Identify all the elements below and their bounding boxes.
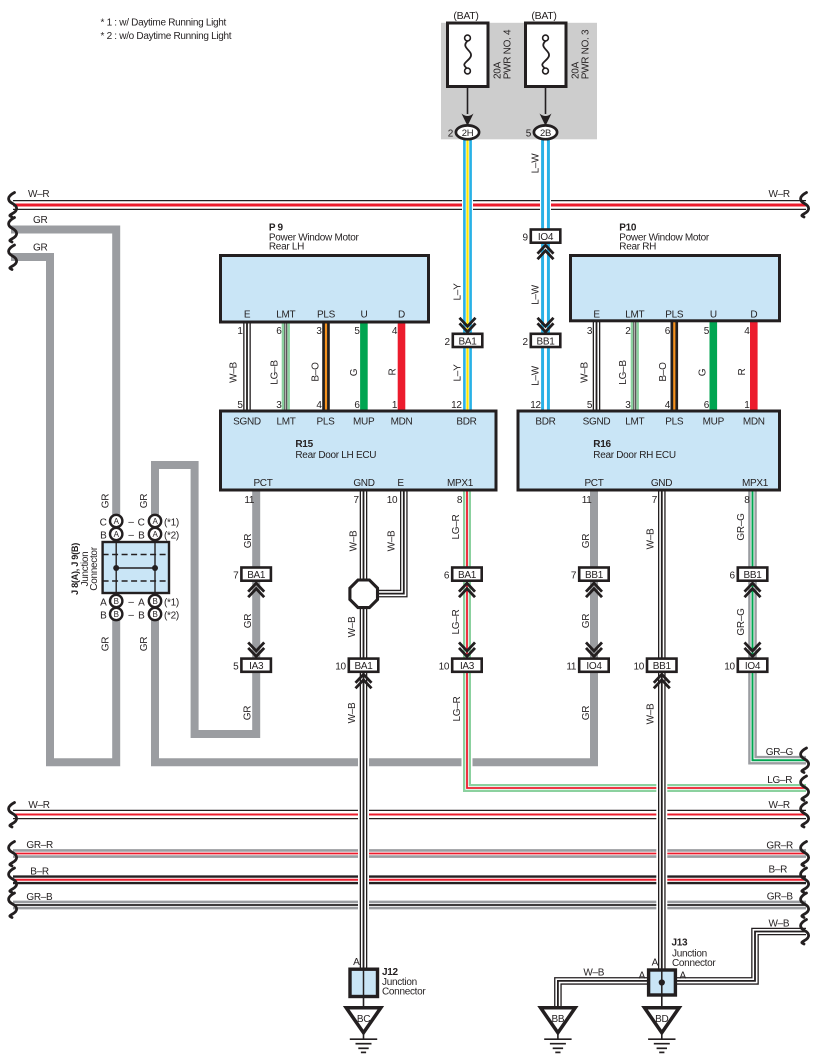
break GR bus1 left	[9, 218, 17, 243]
svg-text:–: –	[128, 597, 134, 608]
svg-text:LMT: LMT	[625, 310, 644, 321]
arrows up from BB1 7	[586, 583, 602, 597]
svg-text:W–B: W–B	[769, 919, 790, 930]
svg-text:BDR: BDR	[456, 416, 476, 427]
arrows up from IO4 9	[538, 245, 554, 259]
wire LG-B P9 LMT to R15 LMT	[282, 322, 290, 411]
svg-text:(BAT): (BAT)	[453, 10, 478, 22]
component J12 junction connector	[350, 957, 426, 1008]
break GR-R right	[801, 842, 809, 867]
connector BB1 pin 2 on L-W	[523, 334, 561, 348]
svg-text:LG–R: LG–R	[451, 514, 462, 539]
svg-text:MPX1: MPX1	[742, 478, 769, 489]
terminal B-B left	[110, 608, 122, 620]
label 20A PWR NO. 4	[493, 29, 514, 79]
svg-text:GR: GR	[243, 534, 254, 548]
svg-text:B–O: B–O	[311, 362, 322, 382]
svg-text:–: –	[128, 530, 134, 541]
wire W-B P9 E to R15 SGND	[243, 322, 251, 411]
svg-text:* 2 : w/o Daytime Running Ligh: * 2 : w/o Daytime Running Light	[101, 31, 232, 42]
svg-text:GR: GR	[101, 637, 112, 651]
svg-text:G: G	[697, 368, 708, 376]
svg-text:R: R	[737, 368, 748, 375]
wire LG-R from R15 MPX1 to right edge	[467, 490, 806, 788]
break LG-R right	[801, 776, 809, 801]
svg-text:A: A	[138, 597, 145, 608]
svg-text:IO4: IO4	[745, 661, 761, 672]
svg-text:5: 5	[237, 400, 243, 411]
svg-text:W–B: W–B	[347, 616, 358, 637]
fuse 20A PWR NO.4	[448, 23, 489, 87]
svg-text:W–B: W–B	[229, 361, 240, 382]
svg-text:SGND: SGND	[583, 416, 611, 427]
arrows down to IO4 11	[586, 642, 602, 656]
svg-text:6: 6	[665, 326, 671, 337]
svg-text:10: 10	[633, 662, 644, 673]
svg-text:U: U	[710, 310, 717, 321]
svg-text:W–B: W–B	[580, 361, 591, 382]
wire W-R top bus	[13, 200, 806, 210]
svg-text:(*1): (*1)	[164, 597, 179, 608]
connector IA3 pin 5 on GR	[233, 659, 271, 673]
label 20A PWR NO. 3	[571, 29, 592, 79]
svg-text:2H: 2H	[462, 128, 474, 139]
wire GR-B bus	[13, 901, 806, 910]
break GR-R left	[9, 842, 17, 867]
svg-text:BC: BC	[357, 1014, 370, 1025]
label J8(A) J9(B) junction connector	[70, 543, 100, 595]
svg-text:E: E	[244, 310, 251, 321]
svg-text:L–Y: L–Y	[453, 364, 464, 382]
svg-text:SGND: SGND	[233, 416, 261, 427]
svg-text:W–B: W–B	[583, 967, 604, 978]
svg-text:PCT: PCT	[584, 478, 603, 489]
svg-text:MUP: MUP	[703, 416, 725, 427]
svg-text:Rear Door LH ECU: Rear Door LH ECU	[295, 450, 376, 461]
svg-text:3: 3	[276, 400, 282, 411]
wire L-Y from fuse 2H to R15 BDR	[462, 139, 473, 411]
svg-text:MUP: MUP	[353, 416, 375, 427]
connector IO4 pin 9 on L-W	[523, 230, 561, 244]
svg-text:9: 9	[523, 233, 529, 244]
svg-text:R15: R15	[295, 439, 313, 450]
connector BB1 pin 6 on GR-G	[730, 568, 768, 582]
svg-text:B: B	[100, 610, 107, 621]
svg-text:* 1 : w/ Daytime Running Light: * 1 : w/ Daytime Running Light	[101, 17, 227, 28]
svg-text:PWR NO. 4: PWR NO. 4	[503, 29, 514, 79]
terminal A-B right	[149, 595, 161, 607]
wire GR R16 PCT to IO4	[590, 490, 598, 672]
svg-text:W–R: W–R	[769, 800, 790, 811]
svg-text:GR–G: GR–G	[736, 608, 747, 636]
wire L-W from fuse 2B to R16 BDR	[540, 139, 551, 411]
arrows down to BB1 2	[538, 318, 554, 332]
svg-text:LMT: LMT	[276, 310, 295, 321]
wire W-B J13 to ground BB	[558, 981, 650, 1008]
connector 2H pin 2	[448, 125, 479, 139]
wire B-R bus	[13, 875, 806, 884]
component R16 Rear Door RH ECU	[518, 411, 780, 490]
svg-text:6: 6	[730, 571, 736, 582]
ground BC	[346, 1008, 381, 1053]
svg-text:J 8(A), J 9(B): J 8(A), J 9(B)	[70, 543, 80, 595]
svg-text:IO4: IO4	[538, 232, 554, 243]
svg-text:MDN: MDN	[743, 416, 765, 427]
arrow fuse1 to connector 2H	[462, 86, 474, 126]
break GR-B left	[9, 893, 17, 918]
svg-text:C: C	[138, 517, 145, 528]
svg-text:D: D	[398, 310, 405, 321]
wire W-B J13 to right edge	[675, 932, 806, 981]
connector BA1 pin 2 on L-Y	[445, 334, 483, 348]
svg-text:W–B: W–B	[646, 703, 657, 724]
svg-text:10: 10	[335, 662, 346, 673]
svg-text:5: 5	[233, 662, 239, 673]
svg-text:B: B	[114, 597, 119, 606]
arrows up from BB1 10	[654, 674, 670, 688]
arrow fuse2 to connector 2B	[540, 86, 552, 126]
svg-text:J13: J13	[672, 938, 689, 949]
svg-text:BB1: BB1	[653, 661, 672, 672]
svg-text:5: 5	[704, 326, 710, 337]
ground BB	[541, 1008, 576, 1053]
svg-text:B–R: B–R	[769, 865, 788, 876]
svg-text:L–W: L–W	[531, 365, 542, 386]
terminal B-A right	[149, 528, 161, 540]
svg-text:(BAT): (BAT)	[531, 10, 556, 22]
svg-text:LG–R: LG–R	[767, 775, 792, 786]
svg-text:GR: GR	[581, 614, 592, 628]
wire R P9 D to R15 MDN	[398, 322, 406, 411]
wire GR-R bus	[13, 849, 806, 858]
svg-text:W–B: W–B	[348, 530, 359, 551]
svg-text:2: 2	[523, 337, 529, 348]
svg-text:GR–B: GR–B	[767, 892, 794, 903]
svg-text:4: 4	[392, 326, 398, 337]
wire LG-B P10 LMT to R16 LMT	[631, 322, 639, 411]
svg-text:B: B	[152, 597, 157, 606]
wire W-B R16 GND to J13	[656, 490, 667, 971]
svg-text:LG–B: LG–B	[618, 360, 629, 385]
break W-R top left	[9, 193, 17, 218]
wire GR-G from R16 MPX1 to right edge	[753, 490, 807, 760]
wire W-B R15 GND to octagon junction	[360, 490, 368, 585]
component J8(A) J9(B) junction connector	[103, 542, 169, 593]
svg-text:B–R: B–R	[30, 867, 49, 878]
svg-text:10: 10	[439, 662, 450, 673]
svg-text:Connector: Connector	[89, 546, 100, 590]
arrows up from BA1 7	[248, 583, 264, 597]
arrows down to IA3 5	[248, 642, 264, 656]
terminal C-A left	[110, 515, 122, 527]
svg-text:B: B	[152, 610, 157, 619]
svg-text:GR: GR	[581, 706, 592, 720]
svg-text:BDR: BDR	[535, 416, 555, 427]
svg-text:1: 1	[392, 400, 398, 411]
label row C A - C A (*1)	[100, 517, 179, 528]
svg-text:LMT: LMT	[625, 416, 644, 427]
wire G P10 U to R16 MUP	[709, 322, 717, 411]
svg-text:GR: GR	[243, 614, 254, 628]
svg-text:7: 7	[652, 495, 658, 506]
svg-text:E: E	[593, 310, 600, 321]
component R15 Rear Door LH ECU	[221, 411, 497, 490]
svg-text:IA3: IA3	[460, 661, 475, 672]
connector IO4 pin 11 on GR	[566, 659, 608, 673]
svg-text:A: A	[100, 597, 107, 608]
connector BA1 pin 7 on GR	[233, 568, 271, 582]
svg-text:2B: 2B	[540, 128, 551, 139]
svg-text:BB1: BB1	[743, 570, 762, 581]
svg-text:8: 8	[744, 495, 750, 506]
svg-text:A: A	[680, 971, 687, 982]
svg-text:B–O: B–O	[658, 362, 669, 382]
connector 2B pin 5	[526, 125, 557, 139]
svg-text:GR: GR	[101, 494, 112, 508]
svg-text:6: 6	[276, 326, 282, 337]
svg-text:PCT: PCT	[253, 478, 272, 489]
svg-text:R: R	[388, 368, 399, 375]
svg-text:W–R: W–R	[28, 800, 49, 811]
svg-text:W–R: W–R	[28, 189, 49, 200]
svg-text:12: 12	[530, 400, 541, 411]
svg-text:GR: GR	[33, 215, 47, 226]
svg-text:U: U	[360, 310, 367, 321]
terminal C-A right	[149, 515, 161, 527]
terminal A-B left	[110, 595, 122, 607]
svg-text:BA1: BA1	[247, 570, 266, 581]
svg-text:–: –	[128, 610, 134, 621]
svg-text:BA1: BA1	[354, 661, 373, 672]
svg-text:MDN: MDN	[391, 416, 413, 427]
ground BD	[645, 1008, 680, 1053]
svg-text:D: D	[750, 310, 757, 321]
svg-text:11: 11	[566, 662, 577, 673]
svg-text:GND: GND	[651, 478, 672, 489]
svg-text:11: 11	[582, 495, 593, 506]
svg-text:2: 2	[448, 128, 454, 139]
svg-text:W–B: W–B	[386, 530, 397, 551]
svg-text:B: B	[138, 530, 145, 541]
wire G P9 U to R15 MUP	[360, 322, 368, 411]
svg-text:IA3: IA3	[249, 661, 264, 672]
svg-text:8: 8	[457, 495, 463, 506]
svg-text:6: 6	[704, 400, 710, 411]
svg-text:B: B	[100, 530, 107, 541]
wire GR junction connector J8 bottom to left bus	[11, 257, 116, 762]
svg-text:5: 5	[354, 326, 360, 337]
arrows up from BA1 6	[459, 583, 475, 597]
component J13 junction connector	[639, 938, 717, 1008]
svg-text:PWR NO. 3: PWR NO. 3	[581, 29, 592, 79]
svg-text:B: B	[114, 610, 119, 619]
connector BA1 pin 6 on LG-R	[444, 568, 482, 582]
svg-text:1: 1	[237, 326, 243, 337]
arrows up from BA1 10	[356, 674, 372, 688]
svg-text:PLS: PLS	[665, 310, 684, 321]
svg-text:L–W: L–W	[531, 153, 542, 174]
connector IA3 pin 10 on LG-R	[439, 659, 482, 673]
label row B B - B B (*2)	[100, 610, 179, 621]
svg-text:GR: GR	[139, 637, 150, 651]
svg-text:GR: GR	[33, 243, 47, 254]
svg-text:3: 3	[587, 326, 593, 337]
svg-text:6: 6	[444, 571, 450, 582]
break W-R top right	[801, 193, 809, 218]
svg-text:GR–R: GR–R	[26, 840, 53, 851]
svg-text:GR: GR	[243, 706, 254, 720]
break B-R right	[801, 868, 809, 893]
wire R P10 D to R16 MDN	[750, 322, 758, 411]
svg-text:W–B: W–B	[646, 528, 657, 549]
svg-text:LG–B: LG–B	[269, 360, 280, 385]
svg-text:PLS: PLS	[316, 416, 335, 427]
svg-text:–: –	[128, 517, 134, 528]
svg-text:LMT: LMT	[276, 416, 295, 427]
svg-text:Rear Door RH ECU: Rear Door RH ECU	[593, 450, 676, 461]
svg-text:7: 7	[354, 495, 360, 506]
arrows down to IA3 10	[459, 642, 475, 656]
svg-text:2: 2	[445, 337, 451, 348]
svg-text:GND: GND	[353, 478, 374, 489]
svg-text:GR–R: GR–R	[766, 841, 793, 852]
svg-text:MPX1: MPX1	[447, 478, 474, 489]
svg-text:10: 10	[387, 495, 398, 506]
wire GR junction connector J8 bottom right to IO4	[155, 619, 594, 762]
svg-text:1: 1	[744, 400, 750, 411]
break GR-G right	[801, 748, 809, 773]
svg-text:PLS: PLS	[317, 310, 336, 321]
svg-text:L–Y: L–Y	[453, 283, 464, 301]
svg-text:BB: BB	[552, 1014, 565, 1025]
svg-text:C: C	[100, 517, 107, 528]
svg-text:G: G	[349, 368, 360, 376]
svg-text:11: 11	[244, 495, 255, 506]
svg-text:12: 12	[451, 400, 462, 411]
svg-text:R16: R16	[593, 439, 611, 450]
svg-text:6: 6	[354, 400, 360, 411]
svg-text:LG–R: LG–R	[451, 609, 462, 634]
break W-B right	[801, 920, 809, 945]
wire B-O P10 PLS to R16 PLS	[670, 322, 678, 411]
label row B A - B A (*2)	[100, 530, 179, 541]
wire W-R bottom bus	[13, 810, 806, 819]
svg-text:(*1): (*1)	[164, 517, 179, 528]
svg-text:BD: BD	[655, 1014, 668, 1025]
svg-text:Rear LH: Rear LH	[269, 242, 304, 253]
svg-text:GR–B: GR–B	[26, 892, 53, 903]
wire GR junction connector J8 right terminals loop to IA3 and PCT of R15	[155, 465, 256, 734]
svg-text:BA1: BA1	[458, 336, 477, 347]
svg-text:7: 7	[571, 571, 577, 582]
arrows up from BB1 6	[745, 583, 761, 597]
connector BB1 pin 7 on GR	[571, 568, 609, 582]
arrows down to BA1 2	[460, 318, 476, 332]
svg-text:3: 3	[625, 400, 631, 411]
svg-text:3: 3	[316, 326, 322, 337]
break GR-B right	[801, 893, 809, 918]
svg-text:BA1: BA1	[458, 570, 477, 581]
svg-text:Connector: Connector	[672, 958, 716, 969]
connector BA1 pin 10 on W-B	[335, 659, 378, 673]
svg-text:(*2): (*2)	[164, 610, 179, 621]
label row A B - A B (*1)	[100, 597, 179, 608]
svg-text:IO4: IO4	[586, 661, 602, 672]
svg-text:A: A	[639, 971, 646, 982]
svg-text:BB1: BB1	[536, 336, 555, 347]
svg-text:GR–G: GR–G	[766, 747, 794, 758]
wire GR bus from left to junction connector J8 top	[11, 230, 116, 518]
svg-text:PLS: PLS	[665, 416, 684, 427]
svg-text:A: A	[353, 957, 360, 968]
component P10 Power Window Motor Rear RH	[571, 222, 780, 320]
fuse block background	[441, 23, 597, 140]
svg-text:Connector: Connector	[382, 987, 426, 998]
svg-text:BB1: BB1	[585, 570, 604, 581]
fuse 20A PWR NO.3	[526, 23, 567, 87]
svg-text:E: E	[397, 478, 404, 489]
arrows down to IO4 10	[745, 642, 761, 656]
break W-R bottom right	[801, 803, 809, 828]
svg-text:A: A	[652, 957, 659, 968]
connector BB1 pin 10 on W-B	[633, 659, 676, 673]
svg-text:10: 10	[724, 662, 735, 673]
svg-text:GR–G: GR–G	[736, 513, 747, 541]
svg-text:GR: GR	[139, 494, 150, 508]
wire W-B P10 E to R16 SGND	[593, 322, 601, 411]
svg-text:W–R: W–R	[769, 189, 790, 200]
svg-text:B: B	[138, 610, 145, 621]
svg-text:4: 4	[744, 326, 750, 337]
svg-text:LG–R: LG–R	[452, 696, 463, 721]
svg-text:2: 2	[625, 326, 631, 337]
svg-text:5: 5	[587, 400, 593, 411]
svg-text:GR: GR	[581, 534, 592, 548]
wire B-O P9 PLS to R15 PLS	[322, 322, 330, 411]
component P9 Power Window Motor Rear LH	[221, 222, 429, 322]
svg-text:W–B: W–B	[347, 702, 358, 723]
terminal B-B right	[149, 608, 161, 620]
break GR bus2 left	[9, 245, 17, 270]
svg-text:5: 5	[526, 128, 532, 139]
node octagon splice R15 GND/E	[350, 580, 378, 608]
svg-text:L–W: L–W	[531, 284, 542, 305]
svg-text:4: 4	[665, 400, 671, 411]
terminal B-A left	[110, 528, 122, 540]
break B-R left	[9, 868, 17, 893]
svg-text:4: 4	[316, 400, 322, 411]
break W-R bottom left	[9, 803, 17, 828]
svg-text:Rear RH: Rear RH	[619, 242, 656, 253]
wire W-B R15 E to octagon junction	[372, 490, 404, 594]
wire W-B octagon junction to J12	[358, 602, 369, 969]
connector IO4 pin 10 on GR-G	[724, 659, 767, 673]
svg-text:(*2): (*2)	[164, 530, 179, 541]
svg-text:7: 7	[233, 571, 239, 582]
